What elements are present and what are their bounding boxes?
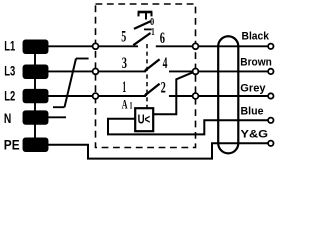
- contact 5-6 lever: [133, 33, 150, 45]
- cable sheath oval: [218, 36, 238, 153]
- node contact 5 input: [93, 43, 99, 49]
- svg-text:N: N: [4, 111, 11, 126]
- svg-text:U<: U<: [138, 112, 151, 126]
- terminal block PE: [24, 139, 48, 152]
- coil wire A2 side: [153, 72, 193, 114]
- switch enclosure dashed box: [96, 4, 196, 148]
- position mark tick 1: [144, 28, 152, 30]
- wire L2 to contact 1: [48, 95, 93, 97]
- wire L2 branch rising diagonal: [65, 59, 77, 108]
- terminal block N: [24, 111, 48, 124]
- output terminal Grey: [268, 93, 273, 98]
- contact 1-2 fixed wire: [98, 95, 146, 97]
- manual actuator T handle: [138, 12, 153, 20]
- svg-text:L3: L3: [4, 64, 15, 79]
- output terminal Black: [268, 44, 273, 49]
- terminal block L2: [24, 90, 48, 103]
- wire contact 2 to Grey terminal: [198, 95, 268, 97]
- terminal block L1: [24, 41, 48, 54]
- svg-text:A: A: [122, 97, 128, 112]
- node contact 4 output: [193, 69, 199, 75]
- position indicator lever 0: [134, 21, 151, 29]
- svg-text:1: 1: [151, 26, 154, 38]
- node contact 6 output: [193, 43, 199, 49]
- svg-text:Brown: Brown: [240, 56, 272, 68]
- wire N stub: [48, 116, 67, 118]
- svg-text:PE: PE: [4, 138, 20, 153]
- contact 5-6 fixed wire: [98, 45, 138, 47]
- svg-text:L1: L1: [4, 39, 15, 54]
- terminal strip connector N-PE: [34, 124, 36, 139]
- svg-text:Grey: Grey: [240, 83, 266, 95]
- svg-text:6: 6: [160, 30, 165, 47]
- output terminal Y&G: [268, 141, 273, 146]
- wire L3 to contact 3: [48, 70, 93, 72]
- output terminal Blue: [268, 118, 273, 123]
- contact 3-4 fixed tip: [145, 69, 147, 72]
- contact 3-4 fixed wire: [98, 70, 146, 72]
- wire L1 to contact 5: [48, 45, 93, 47]
- wire L2 branch top segment: [76, 58, 89, 60]
- svg-text:Black: Black: [242, 30, 270, 42]
- svg-text:2: 2: [161, 79, 166, 96]
- node contact 3 input: [93, 69, 99, 75]
- coil wire A1 side: [108, 119, 268, 135]
- terminal block L3: [24, 66, 48, 79]
- svg-text:Y&G: Y&G: [241, 129, 269, 141]
- undervoltage release U< box: [135, 108, 153, 131]
- svg-text:1: 1: [129, 100, 133, 110]
- mechanical link dashed line: [146, 44, 148, 108]
- svg-text:Blue: Blue: [241, 106, 264, 118]
- wire contact 6 to Black terminal: [198, 45, 268, 47]
- svg-text:4: 4: [163, 55, 168, 72]
- svg-text:1: 1: [122, 79, 126, 96]
- node contact 1 input: [93, 93, 99, 99]
- wire L2 branch lower jog: [53, 106, 65, 108]
- contact 3-4 output wire: [169, 70, 193, 72]
- contact 3-4 lever: [145, 59, 160, 71]
- svg-text:5: 5: [121, 29, 126, 46]
- contact 5-6 output wire: [156, 45, 193, 47]
- svg-text:L2: L2: [4, 88, 15, 103]
- contact 1-2 lever: [145, 84, 160, 96]
- terminal strip connector L2-N: [34, 102, 36, 111]
- node contact 2 output: [193, 93, 199, 99]
- output terminal Brown: [268, 69, 273, 74]
- wire contact 4 to Brown terminal: [198, 70, 268, 72]
- svg-text:3: 3: [122, 55, 127, 72]
- contact 1-2 fixed tip: [145, 93, 147, 96]
- terminal strip connector L3-L2: [34, 78, 36, 90]
- terminal strip connector L1-L3: [34, 53, 36, 66]
- contact 1-2 output wire: [169, 95, 193, 97]
- wire PE to cable: [48, 143, 269, 158]
